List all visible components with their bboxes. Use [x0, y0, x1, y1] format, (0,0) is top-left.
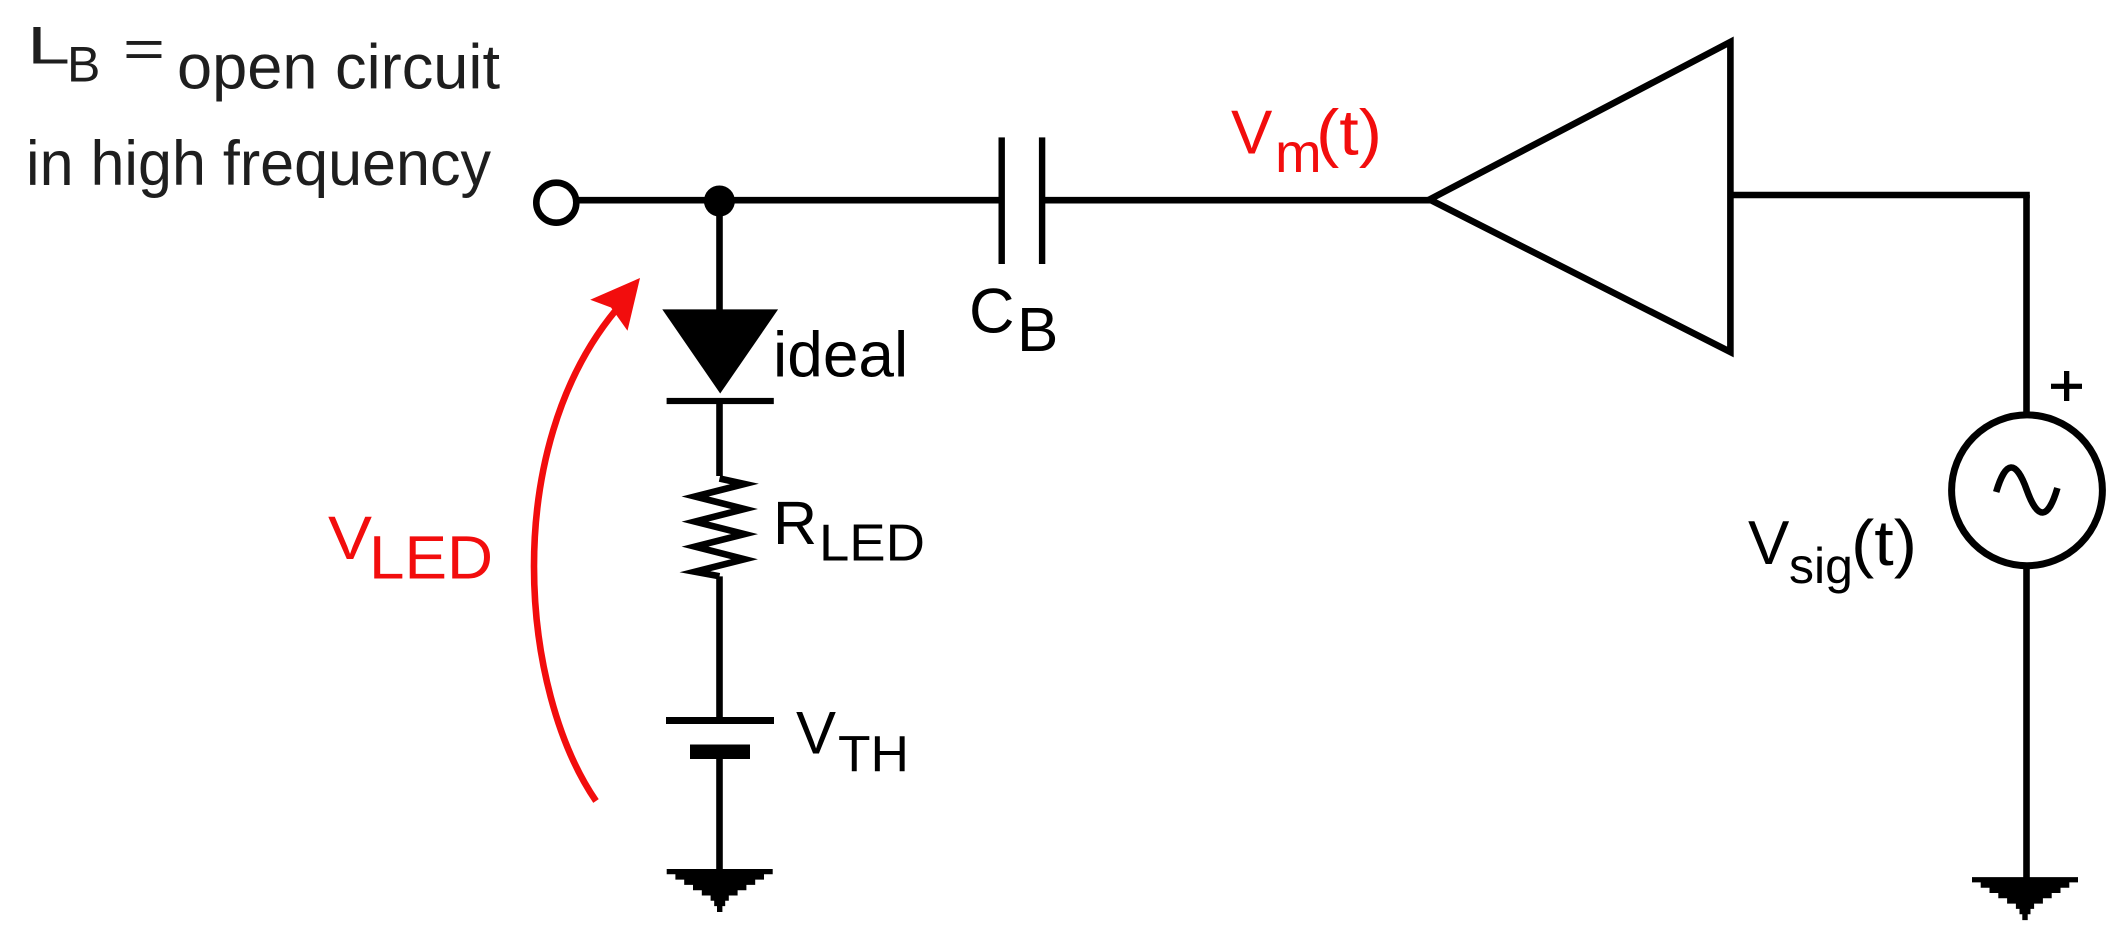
resistor R_LED (zigzag)	[695, 479, 745, 577]
plus sign (source polarity)	[2051, 371, 2082, 401]
svg-text:V: V	[1748, 509, 1790, 578]
label: V_TH	[796, 700, 909, 783]
wire: amplifier output to right corner	[1730, 192, 2029, 199]
source V_sig: sine wave	[1996, 467, 2057, 512]
caption: L_B = open circuit / in high frequency	[26, 17, 500, 199]
label: C_B	[969, 277, 1058, 365]
svg-text:LED: LED	[819, 514, 925, 572]
svg-text:ideal: ideal	[773, 319, 908, 391]
capacitor C_B: right plate	[1039, 137, 1045, 264]
annotation arrow V_LED : head	[590, 278, 640, 331]
junction node (dot)	[704, 186, 735, 217]
svg-text:sig: sig	[1789, 538, 1853, 594]
svg-text:B: B	[1017, 296, 1058, 365]
wire: terminal to junction to capacitor left plate	[560, 197, 1002, 204]
wire: resistor to battery	[716, 576, 723, 718]
wire: battery to ground	[716, 759, 723, 870]
svg-text:open circuit: open circuit	[177, 32, 500, 102]
capacitor C_B: left plate	[999, 137, 1005, 264]
svg-text:=: =	[123, 20, 165, 79]
wire: right vertical down to source	[2023, 195, 2030, 416]
annotation arrow V_LED (red, curved) : shaft	[534, 310, 616, 801]
op-amp U1 (buffer amplifier, pointing left)	[1430, 42, 1731, 352]
svg-text:in high frequency: in high frequency	[26, 129, 491, 199]
battery V_TH: short thick plate	[690, 745, 750, 760]
label: V_LED (red)	[328, 504, 493, 591]
wire: capacitor to amplifier input	[1045, 197, 1431, 204]
ground (left, stepped)	[667, 869, 773, 912]
svg-text:(t): (t)	[1316, 96, 1382, 168]
svg-text:B: B	[67, 36, 100, 92]
wire: junction down to diode anode	[716, 201, 723, 311]
svg-text:m: m	[1275, 121, 1322, 184]
source V_sig: circle	[1952, 415, 2103, 566]
wire: diode cathode to resistor	[716, 402, 723, 476]
svg-text:TH: TH	[838, 726, 909, 783]
label: ideal	[773, 319, 908, 391]
svg-text:R: R	[773, 489, 817, 557]
LED diode D1 (ideal): anode triangle	[662, 309, 778, 393]
battery V_TH: long plate	[666, 717, 774, 724]
label: V_m(t) (red)	[1231, 96, 1382, 184]
svg-text:(t): (t)	[1851, 507, 1917, 579]
svg-text:L: L	[27, 17, 70, 76]
node LB: open-circuit terminal	[536, 183, 576, 223]
wire: source bottom to ground	[2023, 566, 2030, 879]
svg-text:V: V	[1231, 99, 1273, 168]
svg-text:V: V	[796, 700, 836, 767]
ground (right, stepped)	[1972, 877, 2078, 920]
label: R_LED	[773, 489, 925, 572]
svg-text:C: C	[969, 277, 1015, 347]
svg-text:LED: LED	[369, 523, 493, 591]
label: V_sig(t)	[1748, 507, 1917, 594]
svg-text:V: V	[328, 504, 372, 572]
LED diode D1: cathode bar	[667, 398, 774, 404]
